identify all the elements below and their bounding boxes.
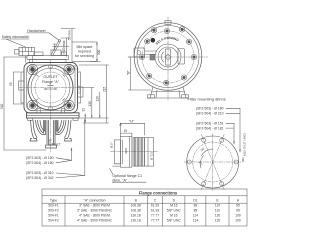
dim 20max bbox=[53, 38, 70, 57]
svg-text:(SF2-503) - Ø 310: (SF2-503) - Ø 310 bbox=[26, 171, 54, 175]
svg-text:100: 100 bbox=[235, 219, 241, 223]
dim plate diameters bbox=[26, 171, 54, 180]
inlet arrow bbox=[49, 140, 52, 146]
angle labels bbox=[200, 149, 212, 168]
svg-text:M 16: M 16 bbox=[170, 214, 177, 218]
svg-text:215: 215 bbox=[102, 86, 106, 92]
svg-text:Flange connections: Flange connections bbox=[139, 191, 178, 196]
svg-text:89: 89 bbox=[194, 204, 198, 208]
square flange body bbox=[24, 63, 78, 114]
svg-text:Safety microswitch: Safety microswitch bbox=[2, 35, 30, 39]
handwheel lever bbox=[51, 40, 64, 56]
svg-text:OUTLET: OUTLET bbox=[43, 75, 58, 79]
top view bottom skirt bbox=[148, 87, 189, 98]
svg-text:504-F1: 504-F1 bbox=[48, 214, 59, 218]
filter mounting bolt holes bbox=[187, 138, 238, 185]
svg-text:95: 95 bbox=[236, 209, 240, 213]
svg-text:(SF2-503) - Ø 150: (SF2-503) - Ø 150 bbox=[26, 156, 54, 160]
svg-text:95: 95 bbox=[9, 82, 13, 86]
svg-text:77.77: 77.77 bbox=[151, 219, 159, 223]
table row 503-F2 bbox=[48, 209, 240, 213]
svg-text:Type: Type bbox=[50, 199, 57, 203]
top view terminal box bbox=[178, 49, 185, 65]
svg-text:106.38: 106.38 bbox=[131, 209, 141, 213]
svg-text:G 1/4": G 1/4" bbox=[78, 85, 82, 93]
table row 504-F1 bbox=[48, 214, 241, 218]
safety microswitch body bbox=[15, 47, 35, 62]
dim 32 bbox=[84, 114, 86, 123]
top plate bbox=[27, 52, 69, 63]
svg-text:5/8" UNC: 5/8" UNC bbox=[167, 209, 181, 213]
svg-text:114: 114 bbox=[193, 219, 198, 223]
svg-text:required: required bbox=[78, 50, 91, 54]
dim 215 bbox=[79, 65, 109, 123]
svg-text:Optional flange C1: Optional flange C1 bbox=[112, 174, 142, 178]
svg-text:Ø17: Ø17 bbox=[110, 142, 114, 148]
port G 1/4 bbox=[78, 85, 82, 93]
svg-text:INLET: INLET bbox=[52, 143, 61, 147]
filter mounting labels group2 bbox=[196, 122, 224, 131]
logo self priming bbox=[151, 36, 180, 46]
top view circle bbox=[134, 23, 202, 91]
svg-text:(SF2-504) - Ø 181: (SF2-504) - Ø 181 bbox=[196, 126, 224, 130]
svg-text:Handwheel: Handwheel bbox=[27, 29, 45, 33]
flange C1 section bbox=[113, 137, 154, 168]
svg-text:Min space: Min space bbox=[77, 45, 93, 49]
svg-text:(SF2-503) - Ø 151: (SF2-503) - Ø 151 bbox=[196, 122, 224, 126]
svg-text:19: 19 bbox=[124, 129, 128, 133]
dim 120 bbox=[99, 92, 101, 118]
svg-text:(SF2-504) - Ø 210: (SF2-504) - Ø 210 bbox=[196, 112, 224, 116]
label D tapped hole bbox=[72, 65, 78, 69]
svg-text:89: 89 bbox=[194, 209, 198, 213]
svg-text:M12 (7/16" UNC): M12 (7/16" UNC) bbox=[243, 133, 247, 156]
dim 95 left bbox=[14, 72, 24, 104]
svg-text:95: 95 bbox=[236, 204, 240, 208]
svg-text:503-F2: 503-F2 bbox=[48, 209, 59, 213]
svg-text:(SF2-504) - Ø 342: (SF2-504) - Ø 342 bbox=[26, 176, 54, 180]
mounting plate bbox=[27, 113, 80, 118]
filter mounting circle bbox=[187, 136, 239, 188]
svg-text:"D": "D" bbox=[72, 65, 78, 69]
svg-text:"H": "H" bbox=[129, 119, 135, 123]
svg-text:Filter mounting dimns: Filter mounting dimns bbox=[188, 96, 226, 101]
svg-text:100: 100 bbox=[235, 214, 241, 218]
bolt holes flange bbox=[27, 64, 74, 110]
svg-text:504-F2: 504-F2 bbox=[48, 219, 59, 223]
dim B top view bbox=[129, 57, 152, 90]
svg-text:20 max: 20 max bbox=[62, 40, 66, 51]
svg-text:130.18: 130.18 bbox=[131, 214, 141, 218]
flange C1 centerline bbox=[111, 151, 159, 153]
top lug bbox=[165, 21, 171, 25]
label Safety microswitch bbox=[2, 35, 30, 39]
svg-text:Ø26: Ø26 bbox=[124, 147, 128, 153]
outlet circle bbox=[28, 65, 73, 110]
svg-text:dimn. "A": dimn. "A" bbox=[112, 178, 127, 182]
svg-text:120: 120 bbox=[215, 214, 221, 218]
thread note M12 bbox=[243, 133, 247, 156]
svg-text:32: 32 bbox=[81, 108, 85, 112]
table header row bbox=[50, 199, 240, 203]
centerlines front view bbox=[19, 60, 82, 152]
label Handwheel bbox=[27, 29, 45, 33]
svg-text:130: 130 bbox=[88, 101, 92, 107]
svg-text:"B": "B" bbox=[127, 70, 131, 75]
svg-text:3" SAE - 3000 PSI/UNC: 3" SAE - 3000 PSI/UNC bbox=[77, 209, 113, 213]
svg-text:M 16: M 16 bbox=[170, 204, 177, 208]
svg-text:120: 120 bbox=[96, 96, 100, 102]
svg-text:3" SAE - 3000 PSI/M: 3" SAE - 3000 PSI/M bbox=[79, 204, 110, 208]
filter mounting title bbox=[188, 96, 226, 101]
dim 50min bbox=[61, 29, 75, 43]
svg-text:540: 540 bbox=[0, 103, 4, 109]
svg-text:120: 120 bbox=[215, 219, 221, 223]
dim 130 bbox=[82, 88, 94, 119]
svg-text:110: 110 bbox=[215, 204, 220, 208]
svg-text:for servicing: for servicing bbox=[75, 54, 94, 58]
svg-text:5/8" UNC: 5/8" UNC bbox=[167, 219, 181, 223]
bell housing bbox=[30, 120, 72, 148]
svg-text:114: 114 bbox=[193, 214, 198, 218]
svg-text:4" SAE - 3000 PSI/UNC: 4" SAE - 3000 PSI/UNC bbox=[77, 219, 113, 223]
svg-text:4" SAE - 3000 PSI/M: 4" SAE - 3000 PSI/M bbox=[79, 214, 110, 218]
svg-text:106.38: 106.38 bbox=[131, 204, 141, 208]
note box min space bbox=[72, 42, 97, 62]
flange C1 labels bbox=[110, 142, 154, 160]
svg-text:"A" connection: "A" connection bbox=[83, 199, 105, 203]
svg-text:50 min: 50 min bbox=[68, 30, 72, 40]
svg-text:130.18: 130.18 bbox=[131, 219, 141, 223]
svg-text:Flange "A": Flange "A" bbox=[42, 80, 60, 84]
filter mounting labels group1 bbox=[196, 107, 224, 116]
table row 503-F1 bbox=[48, 204, 240, 208]
flange C1 dim H bbox=[120, 123, 145, 137]
dim inlet diameters bbox=[26, 156, 54, 165]
flange connections table bbox=[42, 189, 247, 226]
svg-text:503-F1: 503-F1 bbox=[48, 204, 59, 208]
flange C1 hatch bbox=[134, 138, 142, 167]
svg-text:(SF2-503) - Ø 180: (SF2-503) - Ø 180 bbox=[196, 107, 224, 111]
svg-text:61.93: 61.93 bbox=[151, 209, 159, 213]
svg-text:110: 110 bbox=[215, 209, 220, 213]
svg-text:77.77: 77.77 bbox=[151, 214, 159, 218]
svg-text:D1: D1 bbox=[193, 199, 197, 203]
svg-text:61.93: 61.93 bbox=[151, 204, 159, 208]
svg-text:(SF2-504) - Ø 180: (SF2-504) - Ø 180 bbox=[26, 161, 54, 165]
top view bolts bbox=[139, 27, 196, 86]
table row 504-F2 bbox=[48, 219, 241, 223]
flange C1 dim 19 bbox=[121, 133, 132, 136]
rim clamp ears bbox=[151, 28, 156, 33]
svg-text:300: 300 bbox=[97, 49, 101, 55]
top view microswitch bbox=[134, 48, 156, 57]
dim 540 left bbox=[4, 57, 46, 150]
top view bolt circle bbox=[128, 17, 208, 100]
table title bbox=[139, 191, 178, 196]
dim 300 bbox=[90, 42, 101, 62]
svg-text:Ø "D1": Ø "D1" bbox=[149, 151, 153, 160]
